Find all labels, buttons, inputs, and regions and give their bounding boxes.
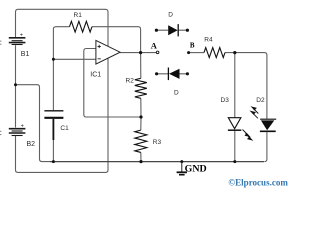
svg-text:R3: R3 (153, 139, 162, 146)
svg-text:IC1: IC1 (90, 72, 101, 79)
svg-text:D2: D2 (256, 97, 265, 104)
svg-text:GND: GND (185, 163, 207, 174)
svg-text:R4: R4 (204, 37, 213, 44)
svg-text:R1: R1 (74, 12, 83, 19)
svg-text:B1: B1 (21, 51, 30, 58)
svg-text:+: + (20, 33, 23, 39)
svg-text:C1: C1 (60, 125, 69, 132)
svg-text:B: B (190, 42, 195, 50)
svg-text:B2: B2 (27, 141, 36, 148)
svg-text:A: A (151, 41, 158, 51)
svg-text:D: D (168, 12, 173, 19)
svg-text:D3: D3 (221, 97, 230, 104)
svg-text:R2: R2 (126, 77, 135, 84)
svg-text:D: D (174, 89, 179, 96)
svg-text:+: + (21, 123, 24, 129)
svg-text:©Elprocus.com: ©Elprocus.com (228, 178, 288, 189)
